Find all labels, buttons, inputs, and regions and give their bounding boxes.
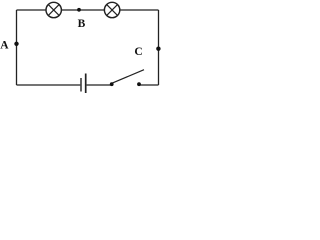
wire bottom-left segment	[17, 84, 81, 86]
wire lamp2 to top-right corner	[120, 9, 159, 11]
node B junction dot	[77, 8, 81, 12]
svg-text:A: A	[0, 40, 9, 52]
wire right vertical	[158, 10, 160, 85]
node C junction dot	[156, 47, 160, 51]
wire battery to switch	[87, 84, 112, 86]
svg-text:B: B	[78, 18, 86, 30]
node A junction dot	[14, 42, 18, 46]
battery cell long plate	[85, 74, 87, 94]
svg-text:C: C	[134, 46, 142, 58]
wire between lamps	[61, 9, 104, 11]
wire switch to bottom-right corner	[140, 84, 159, 86]
battery cell short plate	[80, 78, 82, 92]
switch right contact dot	[137, 82, 141, 86]
wire top-left segment	[17, 9, 47, 11]
wire left vertical	[16, 10, 18, 85]
lamp L2	[104, 2, 119, 17]
lamp L1	[46, 2, 61, 17]
switch blade	[112, 70, 144, 84]
switch left contact dot	[110, 82, 114, 86]
